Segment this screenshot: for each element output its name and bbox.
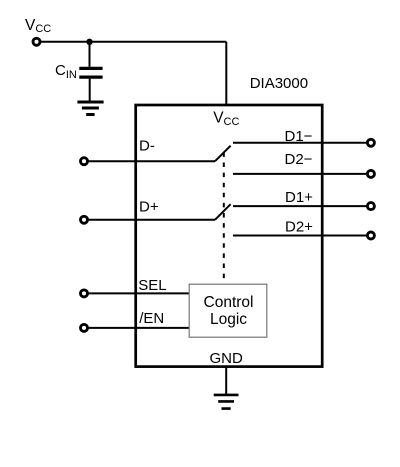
control logic block <box>189 284 267 337</box>
terminal D+ <box>81 216 88 223</box>
switch SW1 (D- to D1-) <box>215 146 231 162</box>
ground (below CIN) <box>77 102 103 115</box>
svg-text:D+: D+ <box>139 199 159 216</box>
IC DIA3000 outline <box>136 105 323 367</box>
terminal D2+ <box>367 232 374 239</box>
terminal VCC <box>33 38 40 45</box>
svg-text:D2+: D2+ <box>285 219 313 236</box>
wire D1- <box>233 142 367 144</box>
wire D2- <box>233 173 367 175</box>
switch SW2 (D+ to D1+) <box>215 204 231 220</box>
wire CIN to ground <box>89 79 91 101</box>
wire SEL <box>84 292 189 294</box>
terminal D1+ <box>367 203 374 210</box>
svg-text:CIN: CIN <box>55 62 77 81</box>
terminal D2- <box>367 170 374 177</box>
svg-text:D2−: D2− <box>285 151 313 168</box>
wire VCC rail to IC <box>225 42 227 105</box>
terminal D- <box>81 158 88 165</box>
svg-text:Logic: Logic <box>210 311 247 328</box>
svg-text:DIA3000: DIA3000 <box>250 75 308 92</box>
wire GND <box>225 367 227 394</box>
terminal /EN <box>81 324 88 331</box>
svg-text:GND: GND <box>210 350 244 367</box>
wire D1+ <box>233 205 367 207</box>
svg-text:/EN: /EN <box>139 310 164 327</box>
svg-text:D-: D- <box>139 137 155 154</box>
wire /EN <box>84 327 189 329</box>
svg-text:Control: Control <box>204 294 254 311</box>
capacitor CIN <box>79 68 102 77</box>
wire D+ input <box>84 219 215 221</box>
junction VCC/CIN <box>86 39 92 45</box>
svg-text:VCC: VCC <box>213 110 239 128</box>
wire D- input <box>84 160 215 162</box>
svg-text:SEL: SEL <box>138 277 166 294</box>
terminal D1- <box>367 139 374 146</box>
control line (dashed) <box>223 152 225 282</box>
svg-text:VCC: VCC <box>25 17 51 35</box>
svg-text:D1+: D1+ <box>285 189 313 206</box>
wire junction to CIN <box>89 42 91 67</box>
terminal SEL <box>81 290 88 297</box>
svg-text:D1−: D1− <box>285 128 313 145</box>
wire D2+ <box>233 235 367 237</box>
wire VCC rail <box>38 41 226 43</box>
ground (below IC) <box>214 395 239 409</box>
